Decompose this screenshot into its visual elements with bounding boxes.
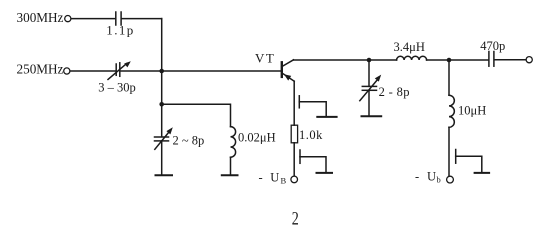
node junction	[367, 58, 372, 63]
svg-text:1.1p: 1.1p	[106, 23, 134, 38]
wire	[162, 104, 231, 126]
wire	[427, 59, 488, 61]
terminal output	[526, 57, 532, 63]
inductor 3.4uH	[397, 56, 427, 60]
capacitor 3-30p variable	[108, 61, 131, 79]
capacitor 1.1p	[116, 12, 121, 25]
svg-text:1.0k: 1.0k	[299, 128, 323, 142]
capacitor 2-8p variable	[360, 60, 381, 115]
wire	[448, 127, 450, 176]
svg-text:3 – 30p: 3 – 30p	[98, 80, 136, 94]
wire	[495, 59, 526, 61]
svg-text:2: 2	[292, 208, 299, 229]
svg-text:470p: 470p	[480, 39, 505, 53]
svg-text:250MHz: 250MHz	[17, 61, 64, 76]
ground	[317, 172, 333, 174]
wire	[71, 18, 114, 20]
svg-text:VT: VT	[255, 50, 275, 65]
wire	[448, 60, 450, 95]
ground	[475, 172, 490, 174]
wire base	[121, 70, 282, 72]
svg-text:0.02μH: 0.02μH	[238, 131, 276, 145]
terminal 300MHz input	[65, 16, 71, 22]
wire	[161, 141, 163, 174]
node junction	[159, 69, 164, 74]
svg-text:3.4μH: 3.4μH	[394, 40, 425, 54]
svg-text:-Ub: -Ub	[415, 169, 441, 184]
node junction	[447, 58, 452, 63]
capacitor emitter bypass upper	[299, 96, 326, 116]
wire	[70, 70, 115, 72]
transistor VT PNP	[282, 60, 294, 81]
resistor 1.0k	[291, 125, 297, 143]
wire emitter	[293, 81, 295, 125]
svg-text:300MHz: 300MHz	[17, 10, 64, 25]
wire collector rail	[294, 59, 397, 61]
node junction	[159, 102, 164, 107]
terminal -Ub	[447, 176, 454, 183]
terminal 250MHz input	[64, 68, 70, 74]
wire	[161, 19, 163, 137]
capacitor bypass right	[456, 150, 482, 172]
capacitor emitter bypass lower	[300, 150, 326, 171]
ground	[317, 116, 336, 118]
svg-text:-UB: -UB	[259, 170, 287, 185]
svg-text:10μH: 10μH	[458, 103, 486, 117]
ground	[362, 115, 382, 117]
ground	[156, 174, 173, 176]
inductor 0.02uH	[231, 127, 236, 158]
terminal -UB	[291, 176, 298, 183]
wire	[122, 18, 162, 20]
svg-text:2 ~ 8p: 2 ~ 8p	[173, 133, 205, 147]
wire	[293, 143, 295, 176]
capacitor 2~8p variable	[155, 127, 173, 149]
ground	[222, 174, 238, 176]
inductor 10uH	[449, 95, 454, 127]
capacitor 470p	[489, 52, 494, 67]
wire	[230, 157, 232, 174]
svg-text:2 - 8p: 2 - 8p	[379, 85, 410, 99]
